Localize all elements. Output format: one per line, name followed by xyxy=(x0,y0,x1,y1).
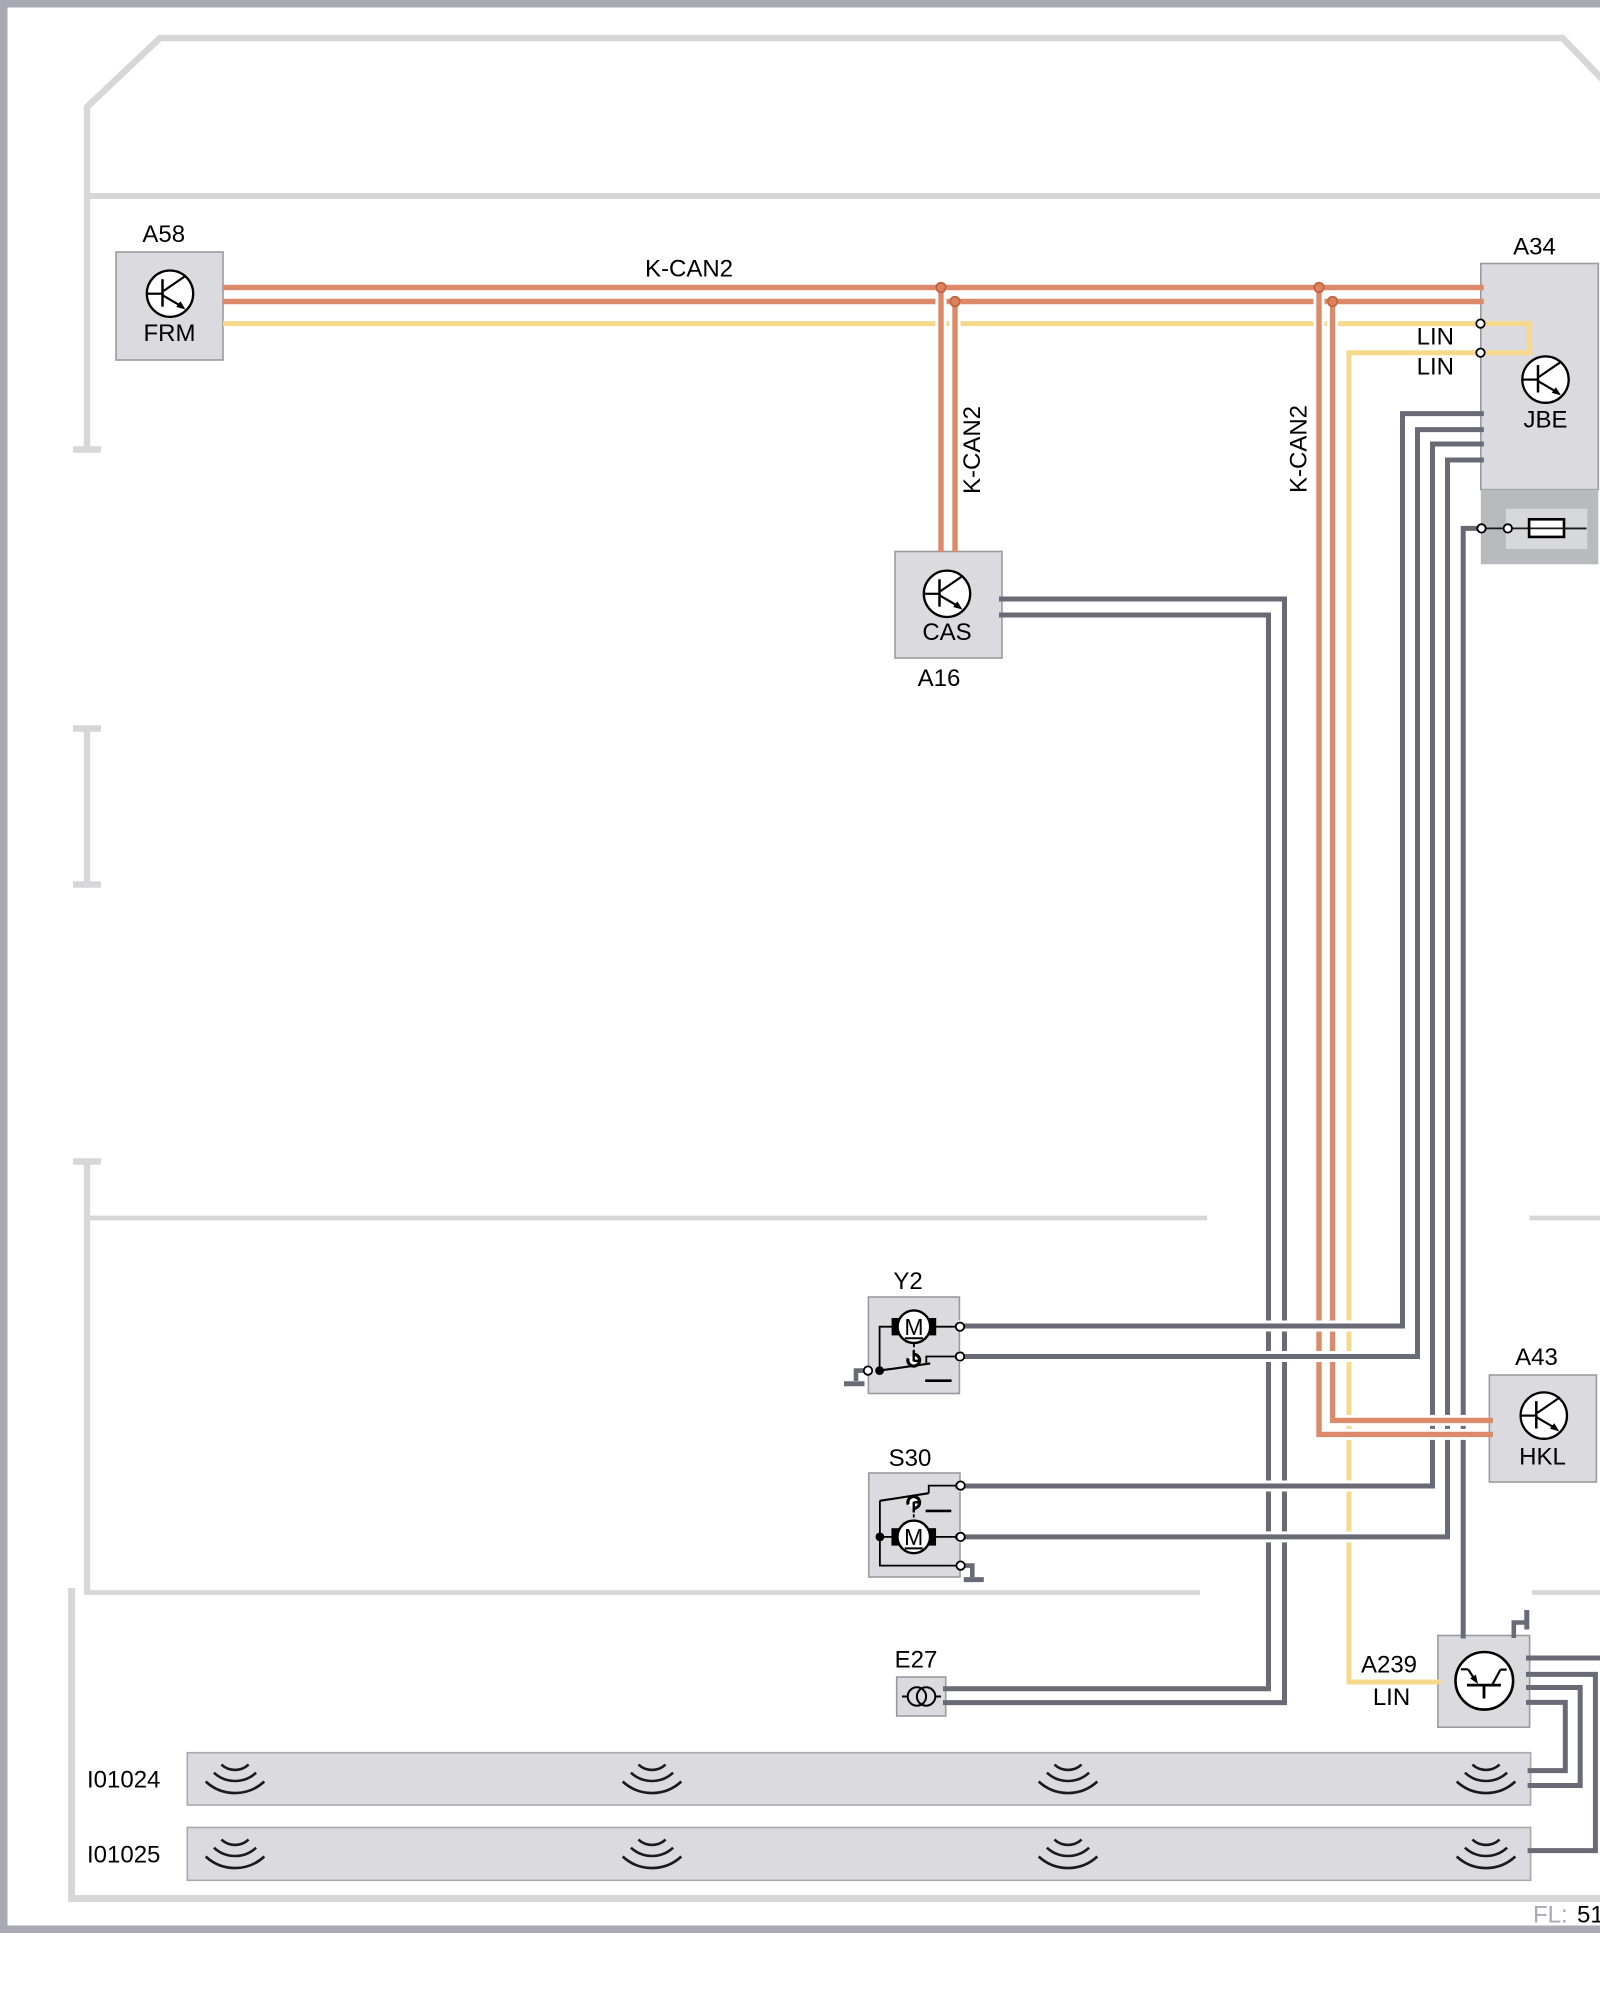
JBE fuse F1 xyxy=(1482,519,1587,537)
wire pin1 to switch lever xyxy=(929,1486,961,1494)
op-amp-style ECU symbol FRM xyxy=(147,271,193,317)
ECU symbol CAS xyxy=(924,571,970,617)
svg-text:A16: A16 xyxy=(918,665,961,692)
S30 junction dot xyxy=(876,1533,885,1542)
car roof outline with left pillar xyxy=(87,38,1600,449)
svg-text:A58: A58 xyxy=(142,221,185,248)
left body segment (I-beam) xyxy=(84,728,91,885)
switch rest contact bar xyxy=(926,1510,952,1513)
yellow LIN loop inside JBE xyxy=(1481,324,1530,353)
wire CAS pin2 to E27 upper xyxy=(950,615,1269,1689)
svg-text:S30: S30 xyxy=(889,1445,932,1472)
svg-text:K-CAN2: K-CAN2 xyxy=(959,406,986,494)
wire junction to motor left brush xyxy=(880,1536,892,1538)
page border top xyxy=(0,0,1600,8)
K-CAN2 bus wire low (orange) xyxy=(223,299,1484,304)
S30 internal circuit xyxy=(880,1486,961,1566)
pillar cap xyxy=(73,446,101,453)
Y2 right pin 2 xyxy=(956,1352,964,1360)
JBE fuse pin circles xyxy=(1477,524,1485,532)
S30 right pin 2 xyxy=(956,1533,964,1541)
svg-text:E27: E27 xyxy=(895,1647,938,1674)
ground at A239 top xyxy=(1514,1610,1527,1638)
wire JBE pin A to Y2 pin1 xyxy=(958,414,1477,1326)
K-CAN2 junction node dot 3 xyxy=(1314,283,1324,293)
Y2 left pin xyxy=(864,1366,872,1374)
wire pin2 to switch contact xyxy=(926,1357,960,1364)
wire motor left brush to junction xyxy=(880,1327,892,1371)
wire A239 to I01024 upper xyxy=(1526,1702,1565,1770)
JBE fuse section (dark) xyxy=(1481,490,1599,565)
Y2 junction dot xyxy=(875,1366,884,1375)
module box A239 xyxy=(1438,1636,1530,1728)
A239 transistor symbol xyxy=(1456,1652,1514,1710)
lamp box E27 xyxy=(897,1677,946,1716)
JBE fuse inner panel xyxy=(1506,509,1587,549)
antenna waves I01025 xyxy=(206,1840,265,1868)
wire JBE pin B to Y2 pin2 xyxy=(958,430,1477,1357)
wire JBE pin D to S30 pin2 xyxy=(958,460,1477,1537)
Y2 internal circuit xyxy=(880,1327,960,1381)
switch box S30 xyxy=(869,1473,960,1577)
ECU symbol HKL xyxy=(1521,1392,1567,1438)
K-CAN2 drop to HKL wire 2 (orange) xyxy=(1333,303,1486,1421)
yellow LIN wire FRM to JBE pin1 xyxy=(223,321,1481,326)
JBE LIN pin 2 xyxy=(1476,349,1484,357)
svg-text:K-CAN2: K-CAN2 xyxy=(645,255,733,282)
svg-text:FRM: FRM xyxy=(144,320,196,347)
K-CAN2 drop to CAS wire 2 (orange) xyxy=(950,303,961,549)
bottom room wall and floor xyxy=(72,1588,1600,1899)
K-CAN2 junction node dot 2 xyxy=(950,297,960,307)
svg-text:I01025: I01025 xyxy=(87,1842,160,1869)
Y2 motor M1 xyxy=(892,1310,937,1343)
svg-text:A43: A43 xyxy=(1515,1344,1558,1371)
ECU box A43 HKL xyxy=(1489,1375,1596,1482)
wire A239 to I01024 lower xyxy=(1526,1688,1580,1786)
lower partition line xyxy=(84,1590,1200,1595)
switch rest contact bar xyxy=(925,1379,951,1382)
svg-text:JBE: JBE xyxy=(1523,407,1567,434)
svg-text:FL:: FL: xyxy=(1533,1902,1568,1929)
K-CAN2 junction node dot 1 xyxy=(936,283,946,293)
S30 switch curved contact xyxy=(908,1497,920,1509)
wire common vertical to pin3 xyxy=(880,1501,961,1566)
wire JBE pin to S30 upper (dark, via CAS drop verticals) xyxy=(941,289,1493,1703)
ground at Y2 left pin xyxy=(844,1371,867,1384)
mechanical link dashed xyxy=(913,1509,915,1520)
Y2 right pin 1 xyxy=(956,1323,964,1331)
antenna bar I01025 xyxy=(187,1828,1530,1881)
antenna waves I01024 xyxy=(206,1765,265,1793)
svg-text:CAS: CAS xyxy=(922,619,971,646)
wire JBE fuse to A239 top xyxy=(1463,528,1478,1631)
ECU box A58 FRM xyxy=(116,252,223,360)
ECU box A16 CAS xyxy=(895,552,1002,659)
left lower pillar xyxy=(73,1158,101,1165)
page border bottom xyxy=(0,1926,1600,1934)
K-CAN2 drop to HKL wire 1 (orange) xyxy=(1319,289,1486,1435)
K-CAN2 junction node dot 4 xyxy=(1328,297,1338,307)
svg-text:A239: A239 xyxy=(1361,1652,1417,1679)
switch lever xyxy=(880,1363,931,1370)
K-CAN2 drop to CAS wire 1 (orange) xyxy=(936,289,947,549)
wire CAS pin1 to E27 lower xyxy=(950,599,1285,1703)
wire A239 to right page edge xyxy=(1526,1656,1600,1661)
svg-text:LIN: LIN xyxy=(1417,354,1454,381)
actuator box Y2 xyxy=(868,1297,959,1394)
wire A239 to I01025 xyxy=(1526,1674,1595,1850)
mechanical link dashed xyxy=(913,1344,915,1355)
svg-text:Y2: Y2 xyxy=(893,1268,922,1295)
ECU symbol JBE xyxy=(1522,356,1568,402)
svg-text:K-CAN2: K-CAN2 xyxy=(1286,405,1313,493)
ECU box A34 JBE main xyxy=(1481,264,1599,490)
JBE LIN pin 1 xyxy=(1476,319,1484,327)
switch lever xyxy=(880,1493,929,1501)
windshield base line xyxy=(87,193,1600,199)
Y2 switch curved contact xyxy=(908,1354,920,1366)
svg-text:LIN: LIN xyxy=(1373,1684,1410,1711)
wire JBE pin C to S30 pin1 xyxy=(958,444,1477,1486)
E27 lamp symbol xyxy=(902,1687,941,1705)
S30 right pin 1 xyxy=(956,1481,964,1489)
mid partition line xyxy=(84,1216,1207,1221)
antenna bar I01024 xyxy=(187,1753,1530,1805)
svg-text:A34: A34 xyxy=(1513,234,1556,261)
S30 right pin 3 xyxy=(956,1561,964,1569)
svg-text:HKL: HKL xyxy=(1519,1444,1566,1471)
K-CAN2 bus wire high (orange) xyxy=(223,285,1484,290)
svg-text:LIN: LIN xyxy=(1417,324,1454,351)
svg-text:I01024: I01024 xyxy=(87,1767,160,1794)
wire motor right brush to pin2 xyxy=(935,1536,961,1538)
svg-text:51: 51 xyxy=(1577,1902,1600,1929)
S30 motor M2 xyxy=(891,1521,936,1554)
wire motor right brush to pin1 xyxy=(935,1326,960,1328)
yellow LIN wire JBE pin2 to A239 xyxy=(1349,353,1481,1682)
ground at S30 pin3 xyxy=(963,1566,984,1580)
page border left xyxy=(0,0,8,1933)
